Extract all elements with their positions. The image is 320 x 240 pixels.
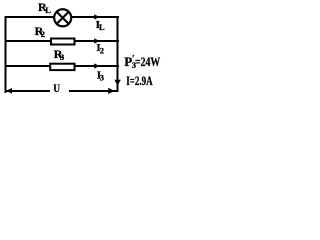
svg-text:U: U [53,83,60,95]
svg-text:L: L [99,22,105,32]
svg-text:3: 3 [60,52,64,62]
svg-text:3: 3 [100,73,104,83]
svg-text:L: L [45,5,51,15]
svg-text:I=2.9A: I=2.9A [126,73,153,88]
svg-text:2: 2 [41,29,45,39]
svg-text:=24W: =24W [135,54,160,69]
svg-text:2: 2 [100,46,104,56]
